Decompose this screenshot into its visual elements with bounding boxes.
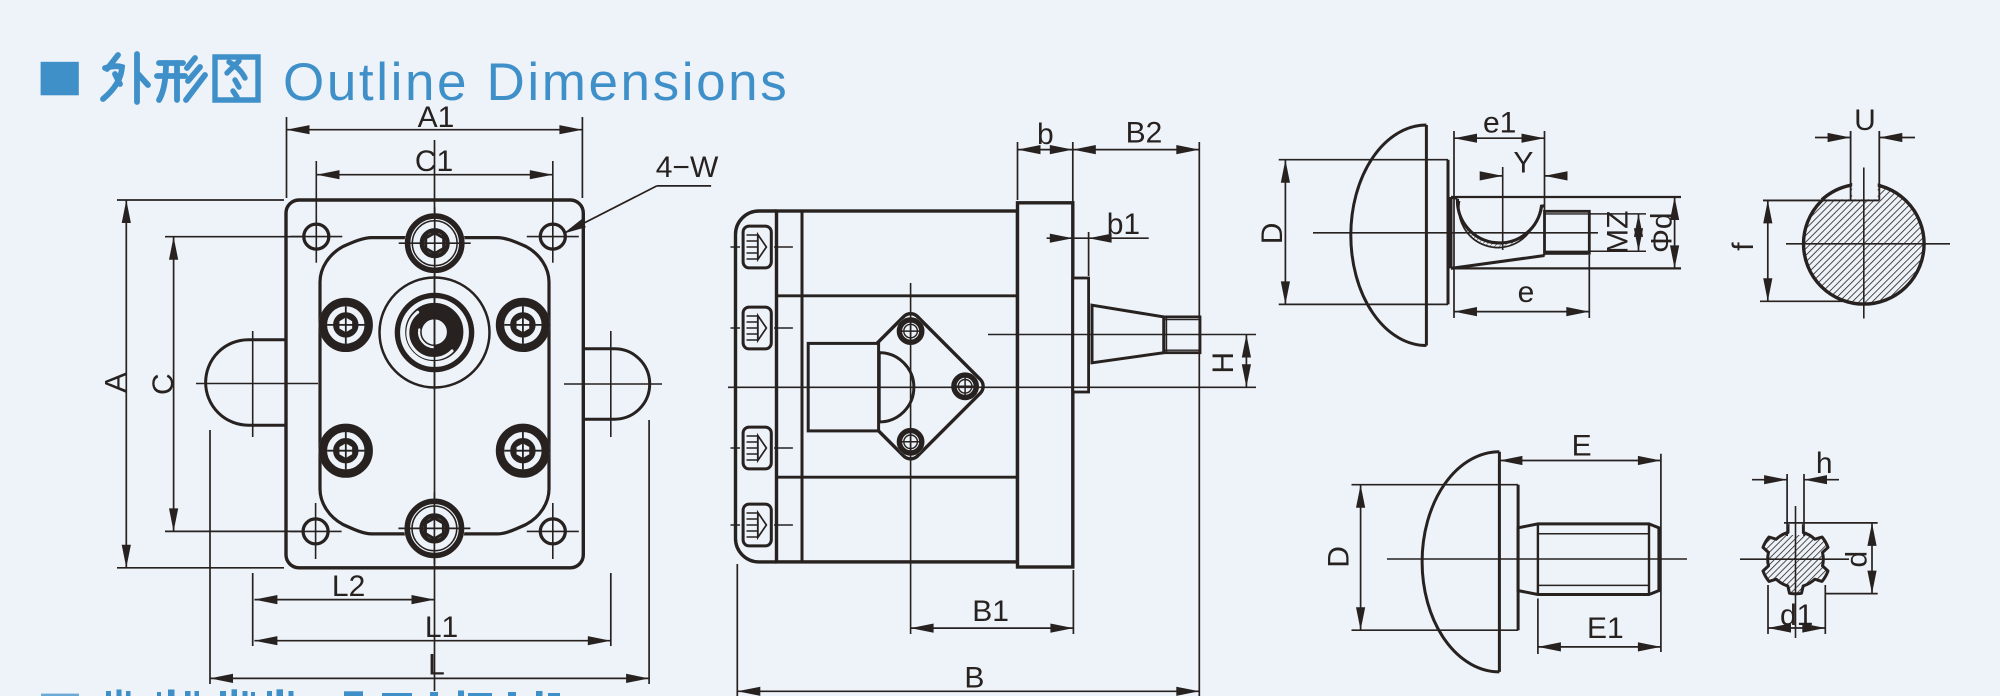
svg-text:H: H: [1207, 352, 1240, 374]
dimension E1: [1537, 599, 1539, 655]
dimension b: [1017, 142, 1019, 200]
side view: bearing step plate b1: [1073, 278, 1089, 392]
front view: left ear lug: [206, 340, 286, 426]
CJK char 图: [215, 57, 258, 100]
dimension b1: [1088, 232, 1090, 276]
dimension C1: [317, 174, 553, 176]
cross-section centerlines: [1863, 168, 1865, 319]
svg-text:A1: A1: [418, 101, 455, 134]
front view: central shaft bore circles: [380, 277, 490, 390]
dimension phi-d: [1674, 197, 1676, 268]
CJK char 外: [103, 54, 148, 102]
svg-text:e: e: [1518, 276, 1535, 309]
spline cross-section: 6-tooth hatched profile: [1763, 525, 1828, 594]
key shaft detail: centerline: [1313, 232, 1598, 234]
side view: body section lines: [777, 294, 1018, 297]
key outline arc (lower) + hatch: [1459, 201, 1533, 248]
spline shaft: chamfered splined cylinder: [1518, 524, 1659, 595]
svg-text:D: D: [1323, 546, 1356, 568]
side view: diamond port flange: [838, 314, 983, 459]
dimension e: [1588, 255, 1590, 318]
front view: mounting flange plate: [286, 200, 583, 568]
socket head bolt at (522.9,324.9): [496, 298, 550, 352]
svg-text:Φd: Φd: [1645, 212, 1678, 253]
dimension A1: [286, 117, 288, 198]
svg-text:Y: Y: [1513, 147, 1533, 180]
svg-text:B2: B2: [1126, 117, 1163, 150]
side view: main body: [777, 211, 1018, 562]
port flange bolt at (910.6,441.8): [897, 428, 925, 456]
CJK char 形: [157, 58, 205, 100]
socket head bolt at (345.8,450.7): [319, 424, 373, 478]
corner mounting hole 4-W at (315.6,531.4): [303, 519, 328, 544]
corner mounting hole 4-W at (552.8,531.4): [540, 519, 565, 544]
key shaft detail: threaded stub: [1545, 211, 1590, 253]
center bolt at (434.4,528.4): [398, 492, 470, 564]
svg-text:B1: B1: [972, 595, 1009, 628]
svg-text:4−W: 4−W: [656, 151, 719, 184]
svg-text:d: d: [1840, 551, 1873, 568]
key shaft detail: bell housing dome: [1351, 125, 1427, 346]
front view: main vertical centerline: [434, 140, 436, 691]
key shaft detail: D extension lines: [1279, 159, 1448, 161]
svg-text:D: D: [1256, 223, 1289, 245]
svg-text:d1: d1: [1780, 599, 1813, 632]
bottom section title sliver (cut off at page edge): [41, 694, 79, 696]
dimension C: [165, 236, 302, 238]
svg-text:C: C: [147, 373, 180, 395]
svg-text:L: L: [428, 648, 445, 681]
corner mounting hole 4-W at (552.8,236.6): [540, 224, 565, 249]
key shaft detail: taper bottom edge: [1451, 256, 1545, 269]
cover bolt at y=448: [731, 427, 793, 469]
svg-text:C1: C1: [415, 145, 453, 178]
side view: diamond vertical centerline: [910, 283, 912, 634]
svg-text:U: U: [1854, 104, 1876, 137]
key shaft detail: flange band: [1447, 160, 1450, 305]
dimension L1: [610, 573, 612, 646]
port flange bolt at (910.6,331.1): [897, 317, 925, 345]
dimension e1: [1453, 131, 1455, 318]
side view: rear cover plate with rounded corners: [736, 211, 777, 562]
side view: tapered drive shaft: [1092, 305, 1164, 363]
dimension MZ: [1589, 213, 1646, 215]
dimension A: [117, 199, 284, 201]
center bolt at (434.7,243.2): [399, 207, 471, 279]
dimension D (spline shaft): [1360, 485, 1362, 631]
side view: port bore semicircle: [879, 353, 914, 422]
socket head bolt at (345.8,324.9): [319, 298, 373, 352]
key shaft detail: taper top edge w/ woodruff pocket: [1451, 197, 1458, 198]
port flange bolt at (965.1,386.3): [951, 372, 979, 400]
cover bolt at y=525: [731, 504, 793, 546]
socket head bolt at (522.9,450.7): [496, 424, 550, 478]
spline shaft centerline: [1387, 558, 1687, 560]
svg-text:B: B: [964, 662, 984, 695]
svg-text:E1: E1: [1587, 612, 1624, 645]
cover bolt at y=247: [731, 226, 793, 268]
keyed shaft cross-section: hatched circle: [1804, 184, 1925, 305]
side view: body centerline: [728, 386, 1256, 388]
dimension E: [1660, 454, 1662, 652]
dimension L2: [252, 573, 254, 646]
key pocket center line: [1502, 167, 1504, 250]
front view: right ear lug: [583, 349, 649, 419]
key shaft detail: phi-d extension lines (major dia): [1451, 196, 1681, 198]
side view: threaded shaft tip: [1164, 317, 1200, 353]
title block: [41, 62, 79, 96]
dimension B: [736, 564, 738, 696]
keyway flat line f: [1763, 199, 1879, 201]
front view: pump body outline: [320, 238, 549, 534]
side view: shaft axis centerline: [988, 334, 1256, 336]
svg-text:L2: L2: [332, 570, 365, 603]
spline shaft detail: bell housing dome: [1422, 452, 1499, 672]
cover bolt at y=328: [731, 307, 793, 349]
svg-text:h: h: [1816, 447, 1833, 480]
svg-text:f: f: [1727, 242, 1760, 251]
dimension D (key shaft): [1284, 160, 1286, 305]
keyway slot white mask: [1852, 150, 1878, 199]
svg-text:e1: e1: [1483, 107, 1516, 140]
side view: rear flange plate: [1018, 203, 1073, 567]
dimension L: [209, 430, 211, 684]
svg-text:E: E: [1572, 430, 1592, 463]
svg-text:L1: L1: [425, 611, 458, 644]
spline shaft detail: flange band: [1517, 485, 1520, 631]
side view: port boss rectangle: [808, 343, 878, 431]
spline top tooth slot: [1790, 518, 1802, 535]
svg-text:MZ: MZ: [1601, 211, 1634, 254]
dimension B1: [911, 627, 1074, 629]
dimension d: [1784, 522, 1878, 524]
svg-text:A: A: [100, 373, 133, 393]
dimension d1: [1767, 585, 1769, 634]
front view: ear centerlines: [196, 383, 318, 385]
dimension Y: [1480, 175, 1503, 177]
dimension f: [1760, 300, 1845, 302]
corner mounting hole 4-W at (316.3,236.6): [304, 224, 329, 249]
h extension / slot edge lines: [1786, 474, 1788, 536]
spline cross-section centerlines: [1740, 558, 1849, 560]
svg-text:b1: b1: [1107, 208, 1140, 241]
dimension h: [1752, 479, 1787, 481]
svg-text:Outline Dimensions: Outline Dimensions: [283, 53, 789, 112]
key shaft detail: shaft base shoulder: [1450, 197, 1453, 268]
dimension U: [1815, 137, 1851, 139]
key shaft detail: taper end face: [1544, 131, 1546, 256]
keyway slot edges / U extension lines: [1850, 131, 1852, 200]
dimension B2: [1198, 142, 1200, 696]
dimension H: [1245, 335, 1247, 388]
svg-text:b: b: [1037, 118, 1054, 151]
